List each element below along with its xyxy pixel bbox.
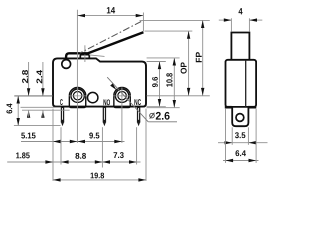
reference line 2.4 bottom bbox=[21, 106, 61, 108]
button centerline bbox=[84, 45, 86, 62]
switch body outline (side view) bbox=[53, 58, 146, 106]
dimension 4 bbox=[219, 8, 262, 31]
plunger button bbox=[80, 55, 89, 59]
dimension row 1.85 / 8.8 / 7.3 bbox=[7, 152, 140, 164]
extension line body left edge bbox=[52, 109, 54, 181]
dimension 2.8 bbox=[22, 62, 30, 118]
FP top extension line bbox=[140, 19, 210, 21]
extension line pin C bbox=[60, 127, 62, 164]
dimension 2.4 bbox=[36, 62, 44, 118]
rivet C inner bbox=[73, 92, 81, 100]
dimension FP bbox=[196, 20, 205, 95]
extension line body right edge bbox=[145, 109, 147, 181]
middle hole bbox=[88, 92, 98, 102]
end view lever tab bbox=[231, 33, 249, 60]
lever pivot hole bbox=[62, 60, 71, 69]
base foot bar left bbox=[225, 106, 232, 109]
terminal pin NC bbox=[137, 107, 140, 126]
centerline through rivet NC column bbox=[121, 88, 123, 143]
label NC bbox=[134, 99, 141, 105]
terminal pocket NC bbox=[114, 88, 130, 108]
dimension OP bbox=[181, 31, 191, 95]
terminal hole bbox=[236, 114, 244, 122]
terminal pocket C bbox=[69, 88, 85, 108]
rivet horizontal centerline right segment bbox=[147, 95, 210, 97]
extension line body bottom right bbox=[147, 106, 166, 108]
dimension 3.5 bbox=[218, 127, 268, 145]
reference line 2.8 bottom bbox=[22, 109, 70, 111]
OP top extension line bbox=[145, 30, 193, 32]
label C bbox=[60, 99, 63, 105]
end view body bbox=[226, 60, 257, 107]
centerline through rivet C column bbox=[76, 10, 78, 143]
dimension 6.4 left bbox=[6, 96, 20, 126]
dimension 19.8 bbox=[53, 173, 146, 182]
extension line top edge high bbox=[147, 57, 180, 59]
label NO bbox=[103, 99, 110, 105]
leader line diameter 2.6 bbox=[107, 77, 177, 122]
extension line pin NC bbox=[136, 127, 138, 164]
extension line top edge low bbox=[147, 61, 166, 63]
rivet horizontal centerline left segment bbox=[14, 95, 53, 97]
rivet horizontal centerline through rivets bbox=[69, 95, 87, 97]
dimension 14 bbox=[77, 7, 143, 31]
lever free-position phantom line bbox=[80, 21, 141, 53]
pin tip reference line bbox=[14, 125, 61, 127]
terminal pin C bbox=[61, 107, 64, 126]
lever arm bbox=[66, 32, 143, 59]
dimension 9.6 bbox=[152, 62, 161, 107]
extension line pin NO bbox=[101, 127, 103, 167]
rivet C outer bbox=[71, 89, 84, 102]
hidden edge right of button bbox=[90, 55, 105, 57]
end view terminal tab bbox=[232, 107, 248, 126]
extension line feet bottom right bbox=[147, 107, 180, 109]
rivet NC inner bbox=[118, 92, 126, 100]
dimension 10.8 bbox=[166, 58, 176, 108]
rivet NC outer bbox=[115, 89, 128, 102]
dimension row 5.15 / 9.5 bbox=[21, 133, 125, 144]
terminal pin NO bbox=[103, 107, 106, 126]
dimension 6.4 right bbox=[223, 109, 259, 163]
end view case seam bbox=[245, 60, 247, 107]
base foot bar right bbox=[248, 106, 256, 109]
